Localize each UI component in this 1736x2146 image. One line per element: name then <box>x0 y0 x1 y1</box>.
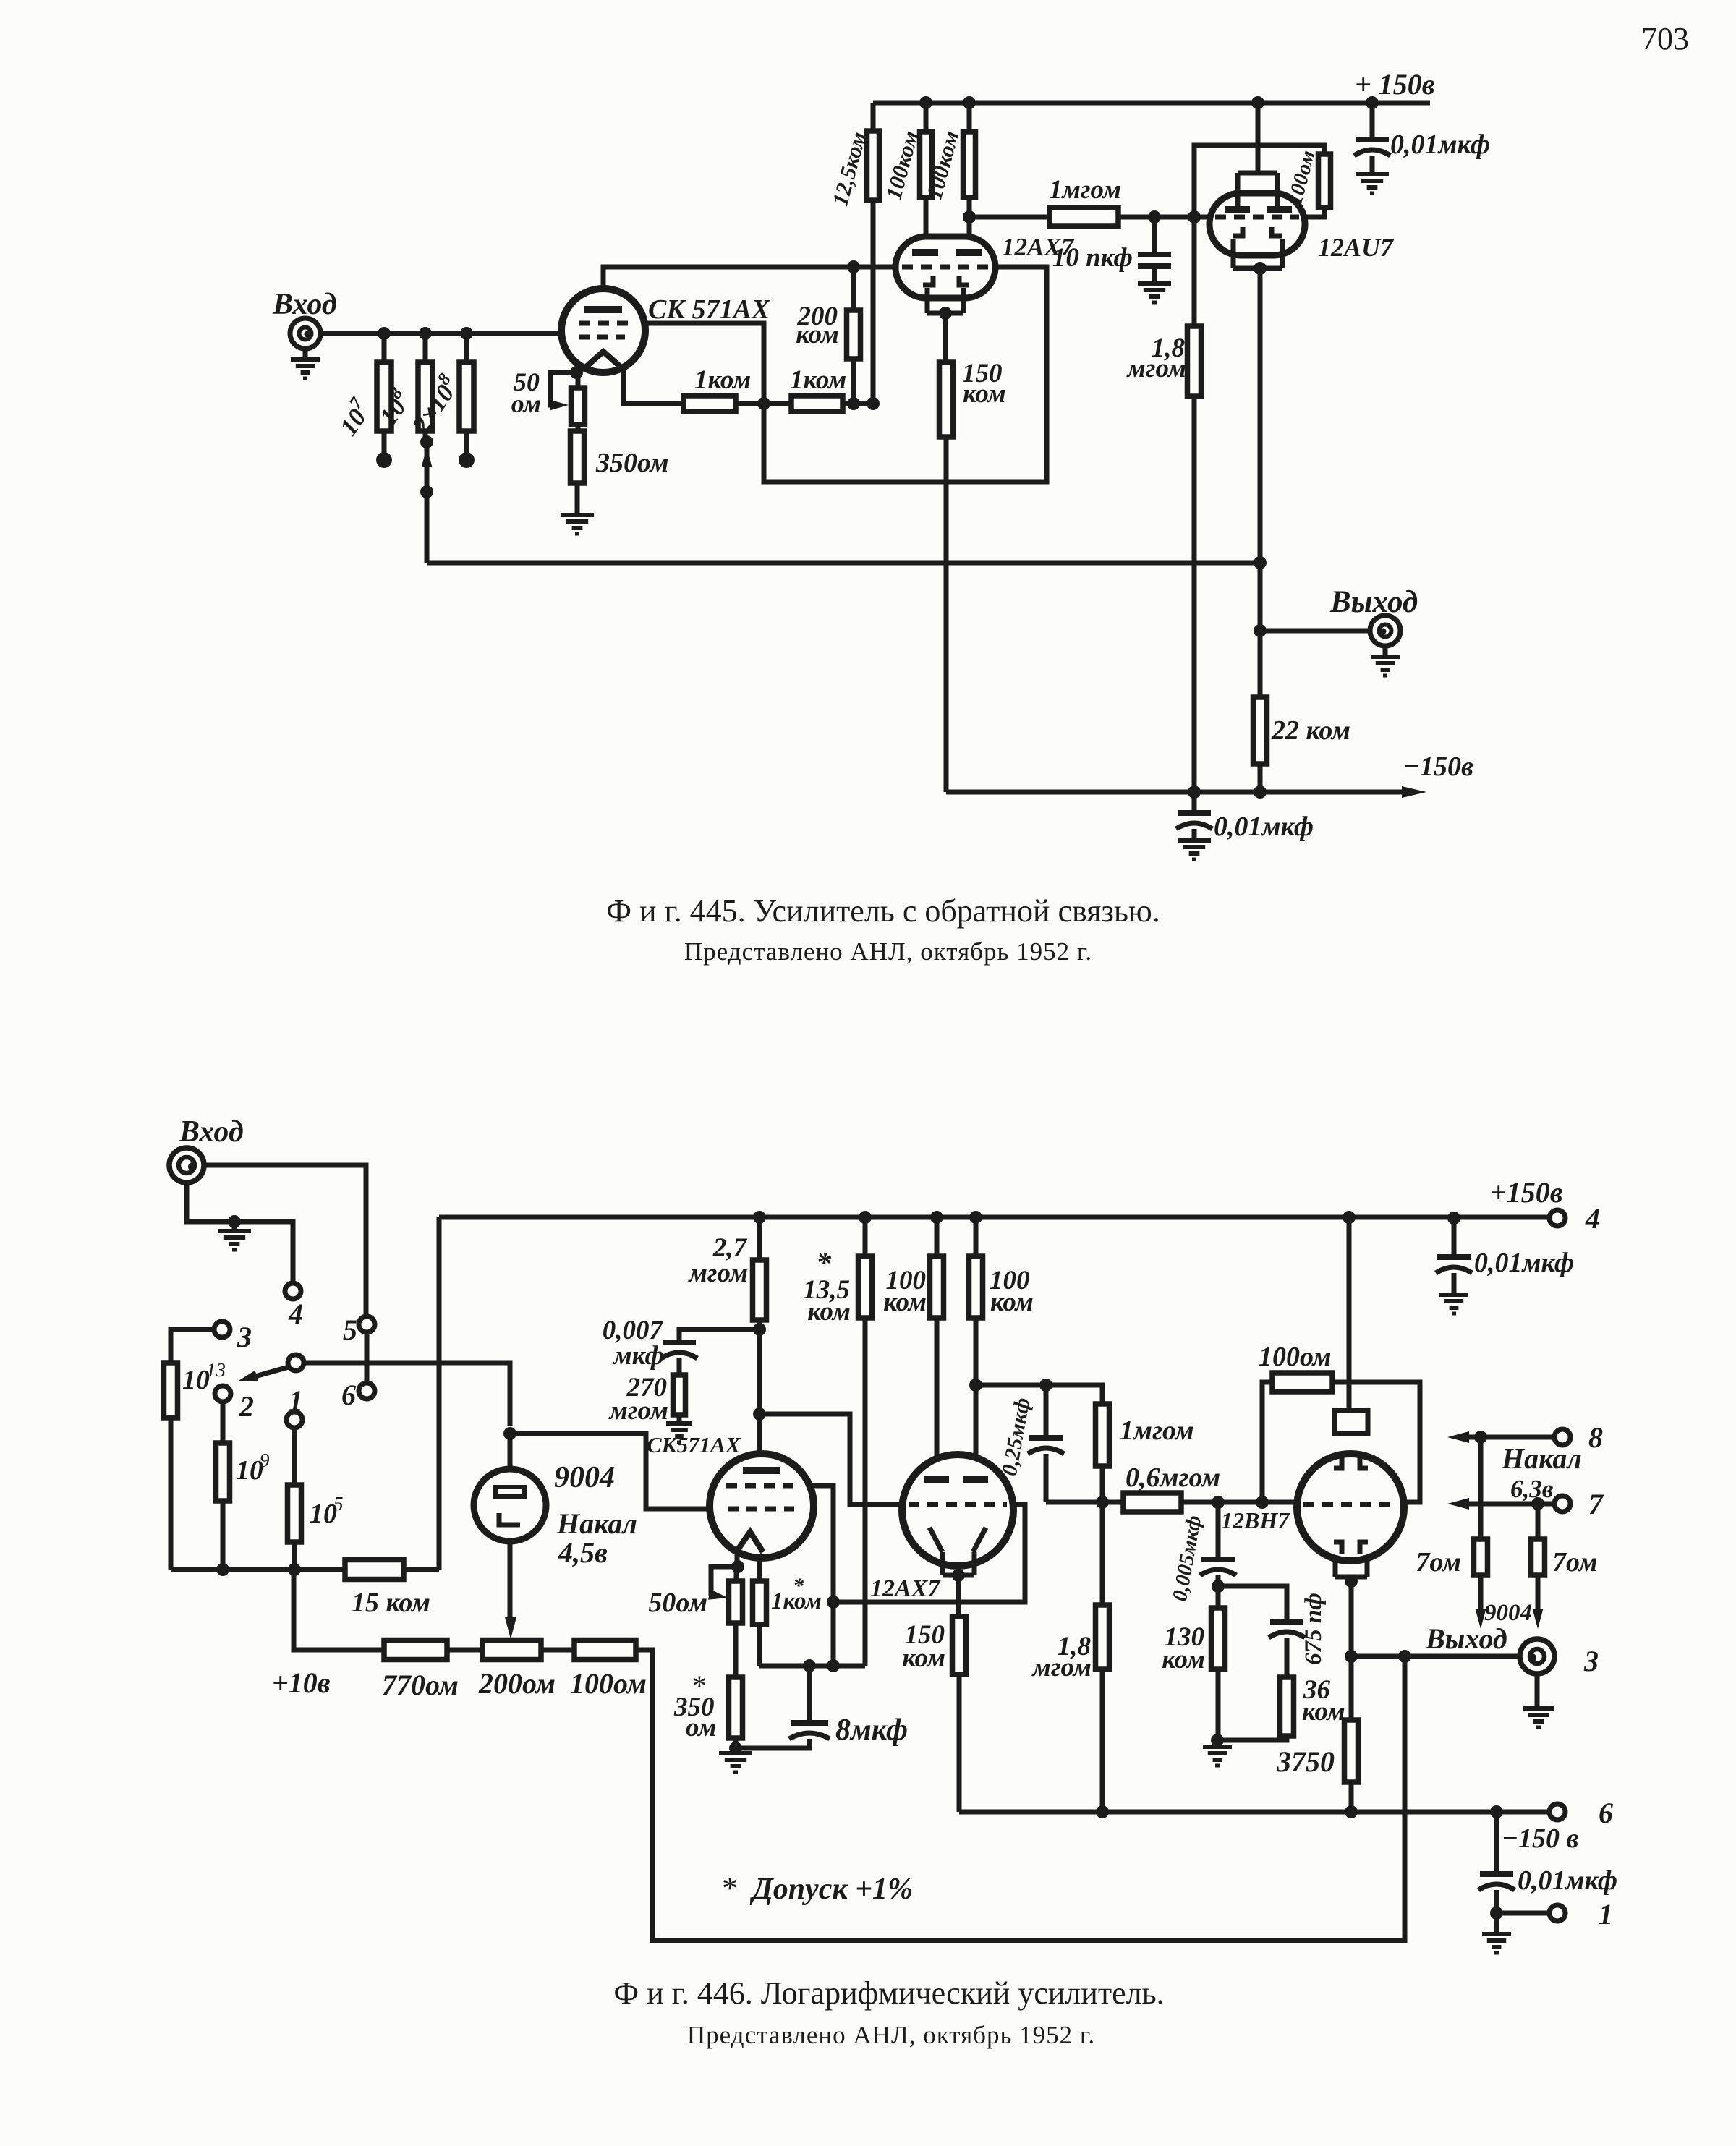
node rail-V3 plate <box>1251 96 1264 109</box>
label Накал 6,3в <box>1501 1442 1582 1503</box>
node 200k bottom junction <box>847 397 860 410</box>
node rail-C3 <box>1188 785 1201 799</box>
wire 8uf lead <box>736 1666 809 1748</box>
terminal 4 left <box>285 1283 301 1299</box>
wire cathode bracket to wiper <box>550 372 576 405</box>
label Вход fig445 <box>272 288 337 321</box>
label 1ком R7 <box>790 365 846 395</box>
svg-text:350ом: 350ом <box>595 448 669 478</box>
wire 350om to ground <box>733 1738 739 1753</box>
svg-text:4,5в: 4,5в <box>558 1536 608 1569</box>
label 100ом R15 <box>1283 148 1320 207</box>
svg-text:Представлено АНЛ, октябрь 1952: Представлено АНЛ, октябрь 1952 г. <box>687 2021 1095 2049</box>
wire jack shield down <box>187 1183 293 1283</box>
ground at input fig446 <box>218 1222 251 1250</box>
tube V6 12AX7 fig446 <box>902 1455 1013 1575</box>
svg-text:1ком: 1ком <box>790 365 846 395</box>
node divider junction A <box>757 397 770 410</box>
resistor 10^13 <box>164 1363 178 1418</box>
svg-text:4: 4 <box>1585 1202 1600 1235</box>
svg-text:5: 5 <box>343 1313 357 1346</box>
node V6 cathode <box>952 1569 965 1582</box>
capacitor 8uf <box>789 1723 830 1739</box>
svg-text:0,005мкф: 0,005мкф <box>1168 1514 1206 1604</box>
node rail-100k1 <box>919 96 932 109</box>
resistor 0.6Mom <box>1123 1493 1181 1512</box>
wire top-cap of V1 <box>603 267 897 307</box>
label 3 <box>237 1321 252 1353</box>
node V5 cathode <box>731 1560 744 1573</box>
terminal dot below R1 <box>376 452 392 468</box>
label 1,8 мгом fig446 <box>1031 1632 1092 1682</box>
label 1 <box>289 1384 303 1417</box>
label 10^9 <box>236 1449 270 1486</box>
resistor R7 1kom <box>791 396 843 412</box>
wire 3750 leads <box>1349 1656 1354 1812</box>
arrowhead -150V <box>1402 786 1426 798</box>
wire divider to V2 grid loop <box>764 267 1047 482</box>
svg-text:−150 в: −150 в <box>1502 1823 1579 1854</box>
label 200 ком <box>796 302 839 349</box>
switch wiper arrow <box>237 1367 289 1381</box>
wire 1M left lead <box>969 215 1050 220</box>
node top-cap to 200k <box>847 260 860 273</box>
wire feedback vertical <box>425 447 430 563</box>
arrow onto 200om pot <box>505 1617 516 1639</box>
resistor 270Mom <box>673 1375 686 1415</box>
svg-text:50ом: 50ом <box>648 1588 707 1618</box>
node plate to coupling <box>753 1408 766 1421</box>
resistor R16 22kom <box>1254 697 1267 764</box>
label 1 right <box>1599 1898 1613 1930</box>
svg-text:3: 3 <box>237 1321 252 1353</box>
svg-text:0,01мкф: 0,01мкф <box>1390 129 1490 160</box>
resistor 100om V7 <box>1272 1373 1332 1392</box>
svg-text:+ 150в: + 150в <box>1355 68 1435 101</box>
label 1ком R6 <box>694 365 751 395</box>
wire 130k leads <box>1216 1586 1221 1740</box>
capacitor C1 10pf <box>1138 255 1171 266</box>
resistor R6 1kom <box>684 396 736 412</box>
label 0,25мкф <box>997 1396 1034 1478</box>
wire pot to R5 <box>576 425 581 431</box>
resistor R10 100kom <box>920 132 932 197</box>
svg-text:0,01мкф: 0,01мкф <box>1518 1865 1617 1896</box>
label 100ом heater <box>570 1667 647 1700</box>
label Накал 4,5в <box>556 1507 637 1569</box>
svg-text:100ом: 100ом <box>1283 148 1320 207</box>
resistor 3750 <box>1345 1720 1358 1782</box>
terminal 1 <box>286 1412 302 1428</box>
label Выход fig445 <box>1329 585 1418 619</box>
resistor 7om-2 <box>1531 1539 1545 1575</box>
switch common contact <box>288 1355 304 1371</box>
arrow 7om-1 down <box>1476 1609 1486 1629</box>
label 130 ком <box>1162 1622 1205 1674</box>
wire heater 7 <box>1447 1498 1554 1510</box>
wire terminal3 to 10^13 <box>171 1329 214 1570</box>
label 0,01мкф bottom <box>1518 1865 1617 1896</box>
capacitor 0.25uf <box>1028 1438 1064 1454</box>
svg-text:0,6мгом: 0,6мгом <box>1126 1462 1220 1493</box>
svg-text:мгом: мгом <box>1031 1653 1092 1682</box>
node row-screen <box>827 1659 840 1672</box>
svg-text:0,01мкф: 0,01мкф <box>1214 812 1314 842</box>
label 270 мгом <box>608 1373 668 1426</box>
svg-text:−150в: −150в <box>1403 751 1473 782</box>
node shield ground tap <box>228 1215 241 1228</box>
wiper arrow on R4 <box>550 400 569 411</box>
wire contact5 to contact6 <box>365 1332 370 1383</box>
svg-text:ом: ом <box>686 1713 716 1742</box>
node 22k to rail <box>1254 785 1267 799</box>
ground below 0.01uf top fig446 <box>1439 1295 1468 1313</box>
resistor 350om star <box>729 1677 743 1738</box>
wire 0.007uf to 270M <box>677 1358 682 1423</box>
node screen-feedback <box>827 1596 840 1609</box>
caption fig445 line1 <box>606 893 1160 929</box>
svg-text:мгом: мгом <box>1126 354 1186 383</box>
svg-text:100ком: 100ком <box>880 128 923 202</box>
node heater8-7om <box>1474 1431 1487 1444</box>
label Выход fig446 <box>1425 1622 1507 1655</box>
node 3750 row <box>1345 1805 1358 1818</box>
wire input to contact5 <box>204 1165 366 1316</box>
page number 703 <box>1641 21 1689 56</box>
resistor R14 1.8Mom <box>1188 326 1201 396</box>
tube V7 12BH7 <box>1297 1410 1404 1577</box>
wire 100om loop V7 <box>1262 1382 1420 1502</box>
wire V3 cathode down <box>1258 268 1263 792</box>
wire 1.8M line <box>1192 217 1197 792</box>
node on feedback line <box>420 485 433 498</box>
label 6 right <box>1599 1797 1613 1829</box>
node rail-100k1 fig446 <box>930 1211 943 1224</box>
wire 150k to -150V row <box>957 1674 962 1812</box>
svg-text:Представлено АНЛ, октябрь 1952: Представлено АНЛ, октябрь 1952 г. <box>684 937 1092 966</box>
svg-text:ком: ком <box>807 1297 851 1327</box>
label 10^8 <box>371 383 417 430</box>
node V1 cathode <box>570 366 583 379</box>
node rail-C 0.01 top fig446 <box>1447 1212 1460 1225</box>
tube V5 CK571AX <box>710 1454 814 1558</box>
label 1мгом R13 <box>1049 175 1121 205</box>
svg-text:ком: ком <box>902 1643 945 1673</box>
capacitor C2 0.01uf <box>1354 140 1390 156</box>
label 12,5ком <box>827 129 871 208</box>
svg-text:1ком: 1ком <box>694 365 751 395</box>
resistor R5 350om <box>571 431 584 483</box>
tube V1 CK571AX <box>561 289 645 372</box>
svg-text:1: 1 <box>1599 1898 1613 1930</box>
label 100 ком 2 fig446 <box>990 1266 1034 1317</box>
wire 0.005uf leads <box>1216 1502 1221 1586</box>
svg-text:6: 6 <box>341 1379 356 1411</box>
label 4 left <box>288 1298 303 1330</box>
wire feedback to V6 grid <box>833 1504 1025 1602</box>
label 10^5 <box>310 1493 344 1529</box>
wire 36k to ground join <box>1217 1736 1287 1740</box>
wire V7 plate feed <box>1347 1217 1352 1412</box>
label 0,01мкф C3 <box>1214 812 1314 842</box>
capacitor 0.01uf bottom <box>1478 1874 1515 1890</box>
node 130k ground <box>1211 1734 1224 1747</box>
label 0,01мкф C2 <box>1390 129 1490 160</box>
resistor R11 100kom <box>963 132 976 197</box>
wire 1M bottom <box>1100 1466 1105 1502</box>
label 7ом right <box>1552 1547 1598 1577</box>
label 50ом fig446 <box>648 1588 707 1618</box>
svg-text:ком: ком <box>1302 1697 1345 1726</box>
resistor 100kom-2 fig446 <box>969 1256 983 1318</box>
svg-text:9004: 9004 <box>554 1461 615 1494</box>
wire bottom row to 15k <box>171 1567 345 1572</box>
wire terminal1 to 10^5 <box>292 1428 297 1570</box>
svg-text:12ВН7: 12ВН7 <box>1221 1507 1290 1533</box>
wire C2 lead <box>1370 103 1375 174</box>
label 675 пф <box>1301 1593 1327 1665</box>
node row-8uf <box>803 1659 816 1672</box>
wire output row <box>1351 1654 1522 1659</box>
label 100ом V7 <box>1259 1342 1332 1372</box>
wire V5 plate to V6 grid <box>759 1414 903 1504</box>
svg-text:1мгом: 1мгом <box>1049 175 1121 205</box>
node plate V2 to 1M <box>963 210 976 223</box>
svg-text:1: 1 <box>289 1384 303 1417</box>
node rail-100k2 fig446 <box>969 1211 982 1224</box>
resistor 36kom <box>1280 1677 1294 1736</box>
wire 15k to +150V riser <box>404 1217 439 1570</box>
svg-text:12АХ7: 12АХ7 <box>870 1575 941 1602</box>
wire 200k leads <box>851 267 856 404</box>
tolerance note <box>720 1870 913 1906</box>
wire V1 cathode right to divider <box>624 367 684 404</box>
ground below C3 <box>1178 840 1211 859</box>
node grid of V4/V5 <box>503 1427 516 1440</box>
node below 0.005uf <box>1212 1580 1225 1593</box>
resistor 1.8Mom fig446 <box>1096 1605 1110 1669</box>
resistor 1kom star <box>753 1581 767 1625</box>
label 150 ком fig446 <box>902 1620 945 1673</box>
svg-text:Ф и г. 446. Логарифмический: Ф и г. 446. Логарифмический усилитель. <box>613 1975 1164 2011</box>
resistor R2 10^8 <box>418 362 433 431</box>
wire V5 cathode stub <box>737 1553 759 1581</box>
wire between 1k resistors <box>736 401 791 406</box>
node 350om ground <box>729 1742 742 1755</box>
svg-text:Накал: Накал <box>1501 1442 1582 1475</box>
wire 1kom to row <box>757 1625 762 1666</box>
svg-text:6: 6 <box>1599 1797 1613 1829</box>
output jack (Выход) fig446 <box>1520 1639 1554 1674</box>
node V3 cathode <box>1254 262 1267 275</box>
wire cathode to pot <box>576 376 581 388</box>
ground below 130k <box>1203 1740 1232 1766</box>
svg-text:13: 13 <box>206 1359 226 1381</box>
wire 12.5k line <box>871 103 876 404</box>
wire 100om grid loop <box>1194 145 1324 217</box>
svg-text:6,3в: 6,3в <box>1510 1475 1554 1503</box>
svg-text:мкф: мкф <box>612 1341 664 1371</box>
svg-text:ом: ом <box>511 389 541 418</box>
node heater7-7om <box>1531 1497 1544 1510</box>
terminal 4 rail <box>1549 1210 1565 1226</box>
wire -150V rail fig445 <box>946 790 1410 795</box>
wire 9004 cathode to pot wiper <box>508 1541 513 1620</box>
resistor R13 1Mom <box>1050 208 1118 226</box>
wire to 675pf <box>1218 1586 1287 1622</box>
svg-text:8мкф: 8мкф <box>835 1713 908 1747</box>
wire 10pf lead <box>1152 217 1157 255</box>
wire 7om-1 leads <box>1478 1437 1484 1620</box>
wire 50om to 350om <box>733 1623 739 1677</box>
wire to terminal1 right <box>1497 1911 1549 1916</box>
caption fig446 line1 <box>613 1975 1164 2011</box>
wire switch common to grid node <box>304 1363 510 1426</box>
wire grid row V7 <box>1046 1500 1297 1505</box>
svg-text:107: 107 <box>331 393 378 440</box>
svg-text:0,25мкф: 0,25мкф <box>997 1396 1034 1478</box>
label 100 ком 1 fig446 <box>883 1266 927 1317</box>
capacitor 675pf <box>1269 1622 1305 1638</box>
wire to 0.007uf <box>679 1329 759 1342</box>
label 9004 arrows <box>1484 1600 1532 1626</box>
input jack (Вход) fig446 <box>169 1148 204 1183</box>
wire heater 8 <box>1447 1431 1554 1443</box>
label 8мкф <box>835 1713 908 1747</box>
resistor R15 100om <box>1319 154 1331 208</box>
label 3 output <box>1583 1645 1599 1677</box>
potentiometer 50om fig446 <box>729 1581 743 1623</box>
label 10 пкф <box>1052 243 1133 273</box>
node row-C 0.01 bottom <box>1490 1805 1503 1818</box>
terminal 2 <box>215 1386 231 1402</box>
label 2,7 мгом <box>688 1233 748 1288</box>
node rail-2.7M <box>753 1211 766 1224</box>
svg-text:12AU7: 12AU7 <box>1318 233 1395 262</box>
wire V2 cathode to 150k <box>943 313 948 362</box>
terminal 3 <box>214 1321 230 1337</box>
tube V3 12AU7 <box>1209 193 1305 255</box>
label 200ом <box>478 1667 556 1700</box>
label +10в <box>272 1666 331 1699</box>
node input-R1 junction <box>378 327 391 340</box>
resistor 15kom <box>345 1560 404 1580</box>
wire 770-200 <box>447 1648 482 1653</box>
resistor 10^5 <box>288 1485 302 1542</box>
wire terminal2 to 10^9 <box>221 1402 226 1570</box>
svg-text:ком: ком <box>963 379 1006 409</box>
node bottomloop-output <box>1398 1650 1411 1663</box>
wire 7om-2 leads <box>1536 1504 1541 1620</box>
node rail-13.5k <box>859 1211 872 1224</box>
resistor R9 12.5kom <box>867 131 880 200</box>
node grid V3 junction <box>1188 210 1201 223</box>
svg-text:770ом: 770ом <box>382 1669 459 1701</box>
svg-text:+10в: +10в <box>272 1666 331 1699</box>
svg-text:7: 7 <box>1588 1488 1604 1520</box>
wire plate2 to 1M fig446 <box>976 1385 1102 1404</box>
label +150в fig445 <box>1355 68 1435 101</box>
wire 0.01uf bottom leads <box>1494 1812 1499 1913</box>
svg-text:Накал: Накал <box>556 1507 637 1540</box>
label 0,005мкф <box>1168 1514 1206 1604</box>
wire 10pf to ground <box>1152 266 1157 284</box>
resistor 130kom <box>1212 1608 1225 1669</box>
wire cathode bracket fig446 <box>711 1567 738 1593</box>
feedback arrow up <box>422 447 433 467</box>
node rail-100k2 <box>963 96 976 109</box>
wire heater row to bottom loop <box>636 1650 1405 1941</box>
resistor 7om-1 <box>1474 1539 1488 1575</box>
terminal 6 <box>359 1383 375 1399</box>
resistor 100kom-1 fig446 <box>930 1256 944 1318</box>
terminal 1 right <box>1549 1905 1565 1921</box>
label 1ком star <box>771 1574 822 1614</box>
node row-10^9 <box>216 1563 229 1576</box>
label 15 ком <box>352 1588 430 1618</box>
label 3750 <box>1276 1745 1335 1778</box>
wire C3 lead <box>1192 792 1197 840</box>
wire 100k1 lead <box>924 103 929 251</box>
label 2x10^8 <box>404 370 466 439</box>
label 12BH7 <box>1221 1507 1290 1533</box>
node input-R3 junction <box>460 327 473 340</box>
resistor 10^9 <box>216 1443 230 1501</box>
label 150 ком <box>962 359 1006 409</box>
ground below C1 <box>1138 284 1171 302</box>
label 2 <box>239 1390 254 1423</box>
node V7 cathode <box>1345 1575 1358 1588</box>
capacitor 0.005uf <box>1200 1559 1236 1575</box>
wire 100k2 lead <box>967 103 972 251</box>
potentiometer R4 50om <box>571 388 585 425</box>
label 350 ом star <box>673 1669 716 1742</box>
label 350ом <box>595 448 669 478</box>
node rail-C2 <box>1366 96 1379 109</box>
node plate tap C 0.007 <box>753 1323 766 1336</box>
label 1мгом fig446 <box>1120 1415 1194 1446</box>
wire 0.25uf lead <box>1044 1385 1049 1502</box>
resistor 200om pot <box>482 1640 541 1660</box>
svg-text:*: * <box>720 1870 736 1906</box>
label -150в fig445 <box>1403 751 1473 782</box>
label 9004 <box>554 1461 615 1494</box>
label 5 <box>343 1313 357 1346</box>
wire cathode to 50om <box>734 1567 739 1581</box>
wire 1M to V3 grid <box>1118 215 1210 220</box>
svg-text:15 ком: 15 ком <box>352 1588 430 1618</box>
wiper arrow 50om <box>708 1589 728 1600</box>
tube V2 12AX7 <box>895 237 995 313</box>
wire +150V rail fig445 <box>873 101 1430 106</box>
label 22 ком <box>1271 715 1350 746</box>
label 10^7 <box>331 393 378 440</box>
svg-text:СК 571АХ: СК 571АХ <box>648 294 771 325</box>
node 12.5k bottom junction <box>867 397 880 410</box>
resistor R1 10^7 <box>377 362 391 431</box>
label 1,8 мгом <box>1126 333 1186 383</box>
input jack (Вход) fig445 <box>290 318 320 349</box>
label -150в fig446 <box>1502 1823 1579 1854</box>
svg-text:ком: ком <box>796 320 839 349</box>
svg-text:Вход: Вход <box>179 1115 244 1149</box>
ground below C2 <box>1356 174 1389 193</box>
ground at input jack fig445 <box>291 349 320 378</box>
wire 1.8M fig446 <box>1100 1502 1105 1812</box>
svg-text:675 пф: 675 пф <box>1301 1593 1327 1665</box>
ground below 350om <box>719 1753 752 1772</box>
svg-text:0,01мкф: 0,01мкф <box>1474 1248 1574 1278</box>
